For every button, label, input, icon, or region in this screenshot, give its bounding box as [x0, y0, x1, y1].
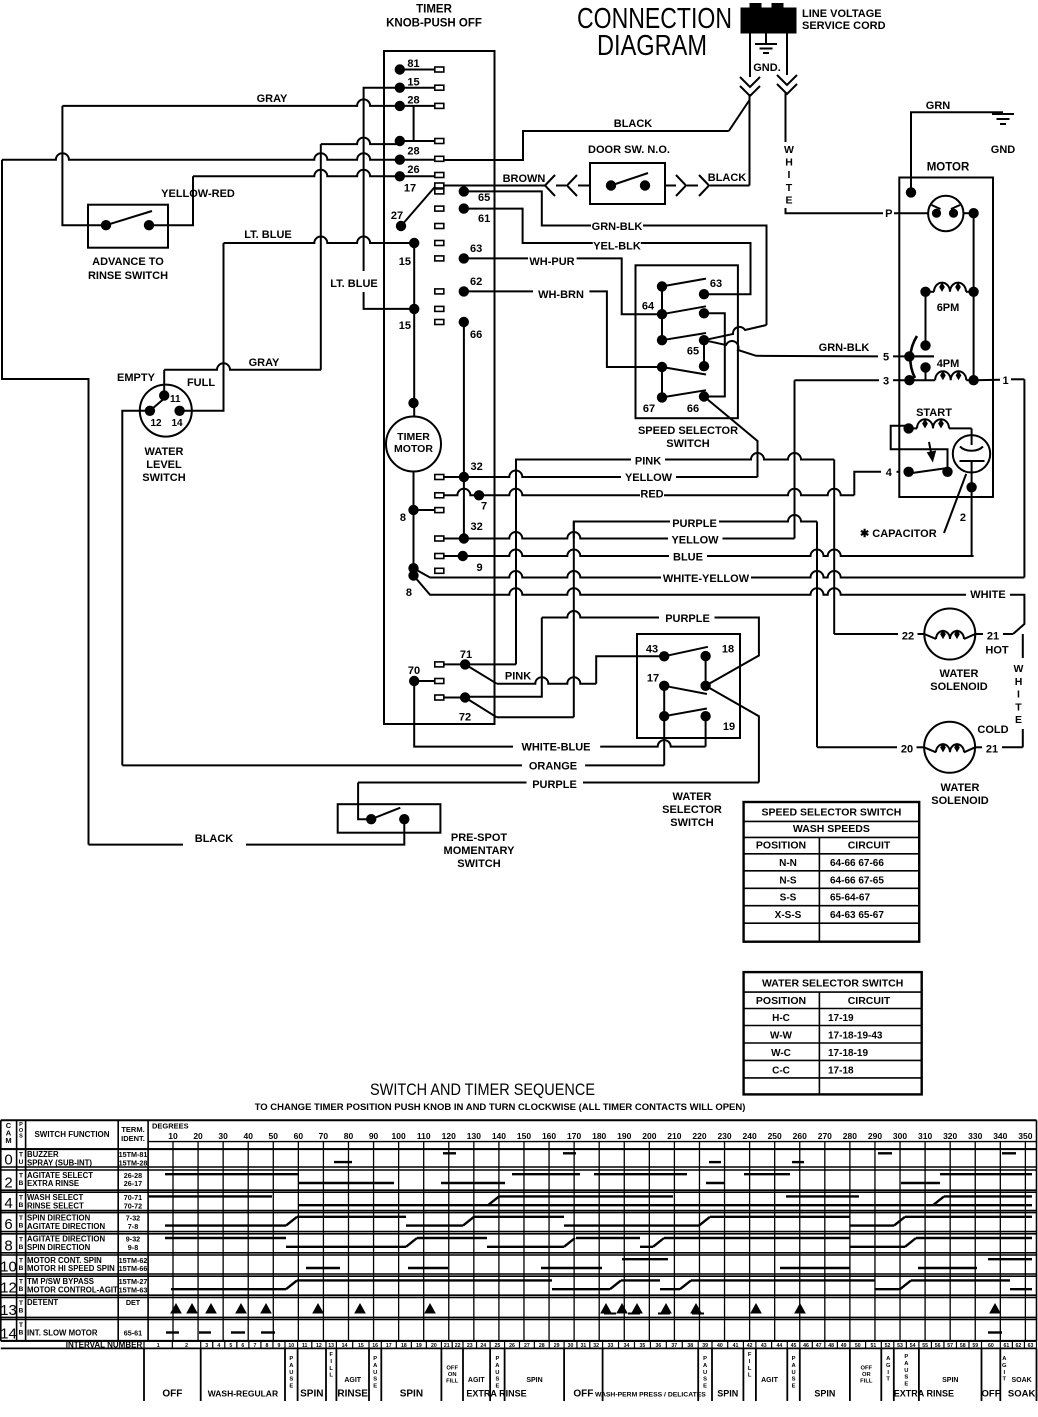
- svg-text:28: 28: [407, 146, 419, 158]
- svg-text:H: H: [1015, 676, 1023, 688]
- svg-text:WATER: WATER: [673, 791, 712, 803]
- svg-text:FULL: FULL: [187, 377, 215, 389]
- svg-text:30: 30: [218, 1131, 228, 1141]
- svg-text:65: 65: [478, 192, 490, 204]
- svg-text:WASH-REGULAR: WASH-REGULAR: [208, 1389, 278, 1399]
- svg-text:57: 57: [947, 1343, 953, 1349]
- svg-text:340: 340: [993, 1131, 1007, 1141]
- svg-text:B: B: [19, 1180, 24, 1187]
- svg-text:240: 240: [743, 1131, 757, 1141]
- svg-text:T: T: [1003, 1377, 1007, 1383]
- svg-text:START: START: [916, 407, 952, 419]
- wire 17 down to ORANGE: [663, 716, 665, 765]
- svg-text:EXTRA RINSE: EXTRA RINSE: [466, 1389, 526, 1399]
- pin 5 contact: [904, 351, 914, 361]
- svg-text:47: 47: [816, 1343, 822, 1349]
- svg-text:WATER SELECTOR SWITCH: WATER SELECTOR SWITCH: [762, 978, 903, 990]
- svg-text:40: 40: [717, 1343, 723, 1349]
- svg-text:43: 43: [646, 644, 658, 656]
- svg-text:BROWN: BROWN: [503, 173, 546, 185]
- svg-text:64-63 65-67: 64-63 65-67: [830, 910, 884, 921]
- svg-text:10: 10: [288, 1343, 294, 1349]
- svg-text:28: 28: [539, 1343, 545, 1349]
- svg-text:8: 8: [265, 1343, 268, 1349]
- svg-text:PINK: PINK: [635, 456, 661, 468]
- svg-text:GRAY: GRAY: [249, 357, 280, 369]
- svg-text:120: 120: [442, 1131, 456, 1141]
- wire 72 blade riser to PURPLE1 row: [465, 698, 497, 718]
- svg-text:300: 300: [893, 1131, 907, 1141]
- svg-text:E: E: [703, 1384, 707, 1390]
- svg-text:80: 80: [344, 1131, 354, 1141]
- svg-text:65-61: 65-61: [124, 1329, 142, 1338]
- svg-text:26: 26: [509, 1343, 515, 1349]
- svg-text:8: 8: [4, 1237, 12, 1254]
- svg-text:33: 33: [608, 1343, 614, 1349]
- timer dots 15a 15b and vertical to timer motor: [409, 238, 419, 248]
- svg-text:SPIN DIRECTION: SPIN DIRECTION: [27, 1243, 91, 1252]
- water selector contacts 43 18 17 19: [659, 651, 669, 661]
- svg-text:MOTOR CONTROL-AGIT: MOTOR CONTROL-AGIT: [27, 1285, 118, 1294]
- wire WHITE to motor pin P: [786, 208, 884, 213]
- wire water level 12 to ORANGE row: [122, 411, 150, 766]
- svg-text:14: 14: [0, 1325, 17, 1342]
- svg-text:L: L: [329, 1373, 333, 1379]
- svg-text:15TM-66: 15TM-66: [119, 1264, 148, 1273]
- svg-text:72: 72: [459, 712, 471, 724]
- svg-text:F: F: [748, 1352, 752, 1358]
- svg-text:TERM.: TERM.: [121, 1125, 144, 1134]
- svg-text:SPRAY (SUB-INT): SPRAY (SUB-INT): [27, 1158, 92, 1167]
- capacitor circle: [971, 428, 973, 445]
- water selector blades: [664, 647, 708, 657]
- svg-text:SPEED SELECTOR: SPEED SELECTOR: [638, 425, 738, 437]
- chart detent marks: [171, 1304, 181, 1313]
- svg-text:53: 53: [897, 1343, 903, 1349]
- svg-text:WHITE-BLUE: WHITE-BLUE: [521, 742, 590, 754]
- svg-text:IDENT.: IDENT.: [121, 1134, 145, 1143]
- svg-text:25: 25: [494, 1343, 500, 1349]
- svg-text:17: 17: [404, 183, 416, 195]
- svg-text:32: 32: [471, 461, 483, 473]
- svg-text:38: 38: [687, 1343, 693, 1349]
- svg-text:SOLENOID: SOLENOID: [931, 795, 989, 807]
- svg-text:5: 5: [229, 1343, 232, 1349]
- pre-spot momentary switch box: [338, 804, 441, 833]
- svg-text:11: 11: [170, 394, 181, 405]
- timer wire 15 top jog to LT BLUE vertical: [364, 88, 400, 271]
- svg-text:22: 22: [455, 1343, 461, 1349]
- svg-text:PURPLE: PURPLE: [532, 779, 577, 791]
- svg-text:GRN-BLK: GRN-BLK: [592, 221, 643, 233]
- speed selector switch box: [636, 265, 738, 418]
- svg-text:WHITE-YELLOW: WHITE-YELLOW: [663, 573, 750, 585]
- svg-text:SPIN: SPIN: [526, 1377, 542, 1384]
- svg-text:27: 27: [391, 210, 403, 222]
- svg-text:24: 24: [480, 1343, 486, 1349]
- water selector switch box: [637, 634, 740, 738]
- svg-text:TIMER: TIMER: [397, 431, 430, 443]
- wire 18 diagonal to WHITE-BLUE riser 2: [706, 686, 759, 783]
- wire 19 down to WHITE-BLUE: [705, 716, 707, 746]
- svg-text:SWITCH FUNCTION: SWITCH FUNCTION: [34, 1130, 109, 1139]
- svg-text:OFF: OFF: [982, 1389, 1001, 1400]
- svg-text:51: 51: [871, 1343, 877, 1349]
- svg-text:64-66 67-66: 64-66 67-66: [830, 858, 884, 869]
- svg-text:H: H: [785, 157, 793, 169]
- timer terminal stubs: [435, 67, 444, 72]
- chart int slow motor marks: [166, 1331, 179, 1333]
- svg-text:HOT: HOT: [985, 645, 1009, 657]
- svg-text:T: T: [19, 1173, 23, 1180]
- svg-text:SWITCH: SWITCH: [457, 858, 500, 870]
- svg-text:N-N: N-N: [779, 858, 797, 869]
- svg-text:14: 14: [342, 1343, 348, 1349]
- motor ground junction dot: [906, 187, 916, 197]
- svg-text:50: 50: [855, 1343, 861, 1349]
- svg-text:ADVANCE TO: ADVANCE TO: [92, 256, 164, 268]
- chart row separators and labels: [1, 1148, 1037, 1150]
- chart degree grid lines: [172, 1142, 174, 1341]
- svg-text:49: 49: [841, 1343, 847, 1349]
- chart label column lines: [0, 1120, 2, 1341]
- svg-text:12: 12: [150, 418, 162, 429]
- svg-text:B: B: [19, 1265, 24, 1272]
- ground symbol GND at motor: [992, 113, 1014, 115]
- svg-text:S: S: [703, 1377, 707, 1383]
- svg-text:63: 63: [1028, 1343, 1034, 1349]
- svg-text:14: 14: [171, 418, 183, 429]
- wire protector right to vertical: [964, 212, 974, 214]
- svg-text:15: 15: [358, 1343, 364, 1349]
- svg-text:CIRCUIT: CIRCUIT: [848, 995, 891, 1007]
- svg-text:T: T: [786, 182, 793, 194]
- svg-text:S: S: [904, 1375, 908, 1381]
- svg-text:E: E: [373, 1384, 377, 1390]
- svg-text:OFF: OFF: [861, 1366, 873, 1372]
- svg-text:TO CHANGE TIMER POSITION PUSH: TO CHANGE TIMER POSITION PUSH KNOB IN AN…: [255, 1102, 746, 1113]
- svg-text:PURPLE: PURPLE: [665, 613, 710, 625]
- svg-text:PURPLE: PURPLE: [672, 518, 717, 530]
- svg-text:W: W: [784, 144, 794, 156]
- svg-text:SPEED SELECTOR SWITCH: SPEED SELECTOR SWITCH: [761, 807, 901, 819]
- svg-text:61: 61: [478, 213, 490, 225]
- svg-text:260: 260: [793, 1131, 807, 1141]
- svg-text:15TM-63: 15TM-63: [119, 1285, 148, 1294]
- svg-text:OFF: OFF: [446, 1366, 458, 1372]
- svg-text:L: L: [329, 1366, 333, 1372]
- svg-text:S: S: [495, 1377, 499, 1383]
- svg-text:48: 48: [828, 1343, 834, 1349]
- svg-text:5: 5: [883, 352, 889, 364]
- svg-text:4: 4: [886, 467, 893, 479]
- door switch right connector chevrons wire BLACK: [665, 185, 676, 187]
- svg-text:I: I: [788, 169, 791, 181]
- svg-text:RINSE SWITCH: RINSE SWITCH: [88, 270, 168, 282]
- svg-text:AGITATE DIRECTION: AGITATE DIRECTION: [27, 1222, 105, 1231]
- svg-text:✱ CAPACITOR: ✱ CAPACITOR: [860, 528, 937, 540]
- svg-text:26: 26: [407, 164, 419, 176]
- svg-text:SWITCH: SWITCH: [142, 472, 185, 484]
- wire 66 diagonal to YELLOW riser: [704, 397, 758, 478]
- svg-text:T: T: [19, 1236, 23, 1243]
- svg-text:EMPTY: EMPTY: [117, 372, 156, 384]
- svg-text:71: 71: [460, 649, 472, 661]
- svg-text:P: P: [792, 1356, 796, 1362]
- timer 27 blade diagonal to stub row: [401, 187, 435, 226]
- svg-text:44: 44: [777, 1343, 783, 1349]
- svg-text:AGIT: AGIT: [468, 1377, 485, 1384]
- svg-text:2: 2: [4, 1175, 12, 1192]
- svg-text:58: 58: [960, 1343, 966, 1349]
- svg-text:FILL: FILL: [860, 1379, 873, 1385]
- svg-text:LEVEL: LEVEL: [146, 459, 182, 471]
- svg-text:250: 250: [768, 1131, 782, 1141]
- svg-text:66: 66: [687, 403, 699, 415]
- svg-text:15: 15: [399, 256, 411, 268]
- svg-text:U: U: [792, 1370, 796, 1376]
- svg-text:2: 2: [185, 1343, 188, 1349]
- svg-text:45: 45: [791, 1343, 797, 1349]
- motor box: [899, 178, 993, 498]
- svg-text:P: P: [289, 1356, 293, 1362]
- svg-text:PINK: PINK: [505, 671, 531, 683]
- svg-text:59: 59: [972, 1343, 978, 1349]
- svg-text:P: P: [885, 208, 892, 220]
- svg-text:65: 65: [687, 346, 699, 358]
- svg-text:GND: GND: [991, 144, 1016, 156]
- svg-text:62: 62: [470, 276, 482, 288]
- motor speed switch arc blade: [910, 336, 917, 378]
- svg-text:20: 20: [901, 744, 913, 756]
- wire FULL water level 14 riser: [180, 243, 224, 411]
- svg-text:270: 270: [818, 1131, 832, 1141]
- svg-text:U: U: [373, 1370, 377, 1376]
- svg-text:30: 30: [568, 1343, 574, 1349]
- svg-text:81: 81: [407, 58, 419, 70]
- start switch return loop: [891, 426, 948, 472]
- svg-text:TIMER: TIMER: [416, 4, 452, 16]
- svg-text:POSITION: POSITION: [756, 995, 806, 1007]
- svg-text:67: 67: [643, 403, 655, 415]
- svg-text:180: 180: [592, 1131, 606, 1141]
- svg-text:U: U: [904, 1368, 908, 1374]
- svg-text:20: 20: [431, 1343, 437, 1349]
- svg-text:G: G: [1002, 1363, 1007, 1369]
- svg-text:32: 32: [593, 1343, 599, 1349]
- svg-text:26-17: 26-17: [124, 1179, 142, 1188]
- svg-text:OR: OR: [862, 1372, 872, 1378]
- svg-text:FILL: FILL: [446, 1379, 459, 1385]
- wire diagonal to BLACK feed: [729, 100, 750, 131]
- svg-text:SWITCH AND TIMER SEQUENCE: SWITCH AND TIMER SEQUENCE: [370, 1081, 595, 1099]
- svg-text:S-S: S-S: [780, 893, 797, 904]
- start switch actuation arrow: [928, 442, 935, 460]
- svg-text:70: 70: [319, 1131, 329, 1141]
- svg-text:INT. SLOW MOTOR: INT. SLOW MOTOR: [27, 1329, 98, 1338]
- svg-text:T: T: [19, 1279, 23, 1286]
- svg-text:13: 13: [0, 1302, 17, 1319]
- svg-text:17-18-19: 17-18-19: [828, 1048, 868, 1059]
- svg-text:W-C: W-C: [771, 1048, 791, 1059]
- svg-text:AGIT: AGIT: [344, 1377, 361, 1384]
- svg-text:11: 11: [302, 1343, 308, 1349]
- svg-text:9-8: 9-8: [128, 1243, 138, 1252]
- svg-text:160: 160: [542, 1131, 556, 1141]
- svg-text:T: T: [19, 1195, 23, 1202]
- wire pin 3 to left riser: [795, 379, 880, 381]
- water selector switch table: [744, 972, 922, 1094]
- svg-text:GND.: GND.: [753, 62, 781, 74]
- svg-text:60: 60: [294, 1131, 304, 1141]
- svg-text:I: I: [1017, 689, 1020, 701]
- svg-text:CIRCUIT: CIRCUIT: [848, 840, 891, 852]
- svg-text:20: 20: [193, 1131, 203, 1141]
- svg-text:220: 220: [692, 1131, 706, 1141]
- svg-text:YELLOW: YELLOW: [625, 472, 673, 484]
- svg-text:U: U: [19, 1159, 24, 1166]
- svg-text:17-18-19-43: 17-18-19-43: [828, 1031, 883, 1042]
- svg-text:50: 50: [269, 1131, 279, 1141]
- svg-text:17: 17: [386, 1343, 392, 1349]
- svg-text:10: 10: [0, 1259, 17, 1276]
- svg-text:SOLENOID: SOLENOID: [930, 681, 988, 693]
- svg-text:DOOR SW. N.O.: DOOR SW. N.O.: [588, 144, 670, 156]
- svg-text:WH-BRN: WH-BRN: [538, 289, 584, 301]
- svg-text:230: 230: [717, 1131, 731, 1141]
- svg-text:200: 200: [642, 1131, 656, 1141]
- svg-text:8: 8: [406, 587, 412, 599]
- speed selector left contacts 64 67 column: [657, 281, 667, 291]
- start winding: [903, 423, 913, 433]
- timer wires dots to stubs: [400, 69, 435, 71]
- svg-text:19: 19: [723, 721, 735, 733]
- svg-text:1: 1: [157, 1343, 160, 1349]
- cold water solenoid circle: [924, 722, 975, 773]
- pin 1 wire: [974, 379, 1000, 381]
- svg-text:W: W: [1014, 663, 1024, 675]
- svg-text:17-19: 17-19: [828, 1013, 854, 1024]
- svg-text:YEL-BLK: YEL-BLK: [593, 241, 641, 253]
- svg-text:65-64-67: 65-64-67: [830, 893, 870, 904]
- svg-text:RINSE: RINSE: [337, 1389, 368, 1400]
- svg-text:210: 210: [667, 1131, 681, 1141]
- svg-text:S: S: [19, 1134, 23, 1140]
- svg-text:43: 43: [761, 1343, 767, 1349]
- svg-text:H-C: H-C: [772, 1013, 790, 1024]
- wire purple riser into pre-spot: [358, 783, 371, 820]
- advance to rinse switch box: [88, 205, 168, 248]
- svg-text:130: 130: [467, 1131, 481, 1141]
- svg-text:32: 32: [471, 521, 483, 533]
- svg-text:U: U: [703, 1370, 707, 1376]
- wire WHITE vertical between solenoids: [1022, 634, 1024, 658]
- svg-text:WATER: WATER: [145, 446, 184, 458]
- svg-text:37: 37: [671, 1343, 677, 1349]
- svg-text:34: 34: [624, 1343, 630, 1349]
- timer contact dots 70 71 72: [409, 676, 419, 686]
- svg-text:BLACK: BLACK: [708, 172, 747, 184]
- svg-text:E: E: [792, 1384, 796, 1390]
- svg-text:EXTRA RINSE: EXTRA RINSE: [894, 1389, 954, 1399]
- svg-text:290: 290: [868, 1131, 882, 1141]
- svg-text:64: 64: [642, 301, 655, 313]
- svg-text:WATER: WATER: [940, 668, 979, 680]
- svg-text:0: 0: [4, 1152, 12, 1169]
- water selector verticals: [705, 656, 707, 686]
- svg-text:GRN: GRN: [926, 100, 951, 112]
- svg-text:70-72: 70-72: [124, 1201, 142, 1210]
- svg-text:P: P: [495, 1356, 499, 1362]
- svg-text:17: 17: [647, 673, 659, 685]
- svg-text:T: T: [886, 1377, 890, 1383]
- svg-text:56: 56: [935, 1343, 941, 1349]
- wire LT BLUE to timer 15b: [364, 292, 415, 309]
- svg-text:POSITION: POSITION: [756, 840, 806, 852]
- svg-text:100: 100: [392, 1131, 406, 1141]
- svg-text:L: L: [748, 1366, 752, 1372]
- chart outer borders: [1, 1119, 1037, 1121]
- svg-text:EXTRA RINSE: EXTRA RINSE: [27, 1179, 79, 1188]
- svg-text:310: 310: [918, 1131, 932, 1141]
- svg-text:16: 16: [372, 1343, 378, 1349]
- wire 6PM left down to speed contact: [925, 292, 927, 346]
- svg-text:YELLOW: YELLOW: [671, 535, 719, 547]
- svg-text:AGIT: AGIT: [761, 1377, 778, 1384]
- svg-text:54: 54: [910, 1343, 916, 1349]
- svg-text:G: G: [886, 1363, 891, 1369]
- svg-text:U: U: [495, 1370, 499, 1376]
- svg-text:T: T: [19, 1258, 23, 1265]
- svg-text:MOMENTARY: MOMENTARY: [444, 845, 516, 857]
- svg-text:350: 350: [1018, 1131, 1032, 1141]
- svg-text:ORANGE: ORANGE: [529, 761, 577, 773]
- svg-text:23: 23: [467, 1343, 473, 1349]
- svg-text:12: 12: [0, 1280, 17, 1297]
- svg-text:63: 63: [470, 243, 482, 255]
- svg-text:WH-PUR: WH-PUR: [529, 256, 574, 268]
- svg-text:19: 19: [416, 1343, 422, 1349]
- svg-text:41: 41: [733, 1343, 739, 1349]
- svg-text:SOAK: SOAK: [1008, 1389, 1036, 1400]
- svg-text:140: 140: [492, 1131, 506, 1141]
- svg-text:6PM: 6PM: [937, 302, 960, 314]
- svg-text:1: 1: [1002, 375, 1008, 387]
- svg-text:SPIN: SPIN: [814, 1389, 835, 1399]
- svg-text:63: 63: [710, 278, 722, 290]
- svg-text:280: 280: [843, 1131, 857, 1141]
- svg-text:E: E: [904, 1382, 908, 1388]
- speed selector right contacts 63 65 66 column: [699, 289, 709, 299]
- svg-text:M: M: [5, 1136, 11, 1145]
- svg-text:22: 22: [902, 631, 914, 643]
- svg-text:RINSE SELECT: RINSE SELECT: [27, 1201, 84, 1210]
- svg-text:27: 27: [524, 1343, 530, 1349]
- timer contact dots 32a 7 32b 9: [459, 472, 469, 482]
- svg-text:T: T: [19, 1215, 23, 1222]
- timer contact 27 dot: [396, 221, 406, 231]
- line voltage service cord plug: [741, 4, 796, 34]
- water level switch circle: [140, 385, 192, 437]
- svg-text:LINE VOLTAGE: LINE VOLTAGE: [802, 8, 882, 20]
- svg-text:DET: DET: [126, 1298, 141, 1307]
- svg-text:P: P: [703, 1356, 707, 1362]
- svg-text:4: 4: [4, 1195, 12, 1212]
- svg-text:T: T: [19, 1322, 23, 1329]
- svg-text:YELLOW-RED: YELLOW-RED: [161, 188, 235, 200]
- svg-text:T: T: [1015, 701, 1022, 713]
- svg-text:28: 28: [407, 95, 419, 107]
